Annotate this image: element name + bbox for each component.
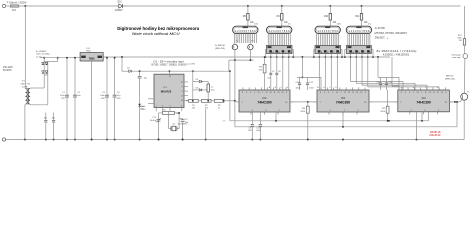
svg-text:4: 4 <box>328 92 329 94</box>
svg-text:R11: R11 <box>355 16 360 18</box>
svg-text:10: 10 <box>360 92 362 94</box>
svg-text:1m: 1m <box>368 24 371 26</box>
svg-text:BY360, 1N5817, 1N5818, 1N5819,: BY360, 1N5817, 1N5818, 1N5819, <box>152 65 187 67</box>
svg-text:15: 15 <box>437 92 439 94</box>
svg-text:74HC390: 74HC390 <box>336 101 350 105</box>
svg-text:16: 16 <box>364 102 366 104</box>
svg-text:(IRFL410): (IRFL410) <box>445 79 455 81</box>
svg-text:15: 15 <box>356 92 358 94</box>
svg-text:9: 9 <box>365 92 366 94</box>
svg-text:1: 1 <box>320 102 321 104</box>
svg-text:10: 10 <box>181 82 183 84</box>
svg-text:10: 10 <box>282 92 284 94</box>
svg-text:47n: 47n <box>44 117 47 119</box>
svg-text:13: 13 <box>181 100 183 102</box>
svg-text:discharge: discharge <box>452 53 462 56</box>
svg-text:14: 14 <box>258 92 260 94</box>
svg-text:7: 7 <box>421 92 422 94</box>
svg-text:11: 11 <box>352 92 354 94</box>
svg-text:4: 4 <box>250 92 251 94</box>
svg-text:47n: 47n <box>52 117 55 119</box>
svg-text:5: 5 <box>358 110 359 112</box>
svg-text:R10: R10 <box>324 16 329 18</box>
svg-text:1N4007: 1N4007 <box>115 10 124 12</box>
svg-text:2: 2 <box>332 92 333 94</box>
svg-text:3: 3 <box>252 110 253 112</box>
svg-text:7: 7 <box>340 92 341 94</box>
svg-text:(IRFL410): (IRFL410) <box>215 48 225 50</box>
svg-text:1 2 3 4 5 6 7 8 9 0: 1 2 3 4 5 6 7 8 9 0 <box>269 29 290 33</box>
svg-text:1: 1 <box>242 102 243 104</box>
svg-text:16: 16 <box>285 102 287 104</box>
svg-text:470µ: 470µ <box>60 95 65 97</box>
svg-text:D7: D7 <box>272 71 274 73</box>
svg-text:9: 9 <box>265 110 266 112</box>
svg-text:T 63mA / 250V: T 63mA / 250V <box>7 1 28 4</box>
svg-text:D8: D8 <box>278 71 280 73</box>
svg-text:IRF510: IRF510 <box>446 76 454 78</box>
svg-text:2: 2 <box>182 91 183 93</box>
svg-text:11: 11 <box>433 92 435 94</box>
svg-text:10m: 10m <box>337 24 341 26</box>
svg-text:3: 3 <box>411 110 412 112</box>
svg-text:12: 12 <box>344 92 346 94</box>
svg-text:6: 6 <box>170 106 171 108</box>
svg-text:50-60Hz: 50-60Hz <box>3 70 13 72</box>
svg-text:6: 6 <box>246 92 247 94</box>
svg-text:1W: 1W <box>459 40 462 42</box>
svg-text:1 2 3 4 5 6 7 8 9 0: 1 2 3 4 5 6 7 8 9 0 <box>235 29 256 33</box>
svg-text:10-40p: 10-40p <box>150 120 157 122</box>
svg-text:Nixie clock without MCU: Nixie clock without MCU <box>132 31 180 36</box>
svg-text:X7R: X7R <box>248 130 252 132</box>
svg-text:8: 8 <box>181 106 182 108</box>
svg-text:16: 16 <box>169 76 171 78</box>
svg-text:230-240V: 230-240V <box>3 67 13 69</box>
svg-text:13: 13 <box>348 92 350 94</box>
svg-text:12: 12 <box>266 92 268 94</box>
svg-text:MAA723: MAA723 <box>161 89 172 93</box>
svg-text:9: 9 <box>445 92 446 94</box>
svg-text:15: 15 <box>278 92 280 94</box>
svg-text:14: 14 <box>417 92 419 94</box>
svg-text:Po1: Po1 <box>12 10 17 12</box>
svg-text:100n: 100n <box>256 130 260 132</box>
svg-text:ZM1082T, ...): ZM1082T, ...) <box>375 38 389 40</box>
svg-text:wire strip: wire strip <box>452 56 461 59</box>
svg-text:4x Z574B: 4x Z574B <box>375 28 385 30</box>
svg-text:nast.: nast. <box>140 105 145 108</box>
svg-text:12: 12 <box>425 92 427 94</box>
svg-text:100n: 100n <box>296 88 300 90</box>
svg-text:1 2 3 4 5 6 7 8 9 0: 1 2 3 4 5 6 7 8 9 0 <box>317 29 338 33</box>
svg-text:9: 9 <box>344 110 345 112</box>
svg-text:2: 2 <box>254 92 255 94</box>
svg-text:6: 6 <box>405 92 406 94</box>
svg-text:(Z570M, Z573M, ZM1080T,: (Z570M, Z573M, ZM1080T, <box>374 33 407 35</box>
svg-text:1: 1 <box>156 106 157 108</box>
svg-text:D10: D10 <box>118 2 123 4</box>
svg-text:14: 14 <box>336 92 338 94</box>
svg-text:9: 9 <box>182 86 183 88</box>
svg-text:25V: 25V <box>61 98 65 100</box>
svg-text:2: 2 <box>413 92 414 94</box>
svg-text:7: 7 <box>262 92 263 94</box>
svg-text:Digitronové hodiny bez mikropr: Digitronové hodiny bez mikroprocesoru <box>117 26 199 31</box>
svg-text:cca 170V: cca 170V <box>186 63 196 65</box>
svg-text:11: 11 <box>274 92 276 94</box>
svg-text:nebo schottky: nebo schottky <box>36 53 50 56</box>
svg-text:1 2 3 4 5 6 7 8 9 0: 1 2 3 4 5 6 7 8 9 0 <box>349 29 370 33</box>
svg-text:63V: 63V <box>101 98 105 100</box>
svg-text:74HC390: 74HC390 <box>416 101 430 105</box>
svg-text:3: 3 <box>162 106 163 108</box>
svg-text:5: 5 <box>279 110 280 112</box>
svg-text:4: 4 <box>409 92 410 94</box>
svg-text:1Hz: 1Hz <box>140 109 144 111</box>
svg-text:17s: 17s <box>223 121 226 123</box>
svg-text:7805: 7805 <box>89 56 95 60</box>
svg-text:K155ID1 / KM155ID1: K155ID1 / KM155ID1 <box>383 55 410 57</box>
svg-text:3: 3 <box>330 110 331 112</box>
svg-text:1,5VA: 1,5VA <box>22 85 28 88</box>
svg-text:3x ZM74141 / (74141): 3x ZM74141 / (74141) <box>376 51 417 53</box>
svg-text:10k: 10k <box>192 107 195 109</box>
svg-text:2x IRF510: 2x IRF510 <box>215 45 226 47</box>
svg-text:100n: 100n <box>309 88 313 90</box>
svg-text:25V: 25V <box>117 98 121 100</box>
svg-text:16: 16 <box>445 102 447 104</box>
svg-text:1k: 1k <box>218 107 220 109</box>
svg-text:D1 - D9 = schottky např.: D1 - D9 = schottky např. <box>154 60 185 63</box>
svg-text:9: 9 <box>424 110 425 112</box>
svg-text:8: 8 <box>320 92 321 94</box>
svg-text:5: 5 <box>438 110 439 112</box>
svg-text:MKnB 02: MKnB 02 <box>430 133 442 137</box>
svg-text:8: 8 <box>242 92 243 94</box>
svg-text:13: 13 <box>429 92 431 94</box>
svg-text:13: 13 <box>270 92 272 94</box>
svg-text:8: 8 <box>401 92 402 94</box>
svg-text:6: 6 <box>324 92 325 94</box>
svg-text:4x 1N4007: 4x 1N4007 <box>36 51 47 53</box>
svg-text:47p: 47p <box>268 78 271 80</box>
svg-text:74HC390: 74HC390 <box>257 101 271 105</box>
svg-text:1: 1 <box>400 102 401 104</box>
svg-text:10: 10 <box>441 92 443 94</box>
svg-text:11: 11 <box>181 96 183 98</box>
svg-text:9: 9 <box>286 92 287 94</box>
